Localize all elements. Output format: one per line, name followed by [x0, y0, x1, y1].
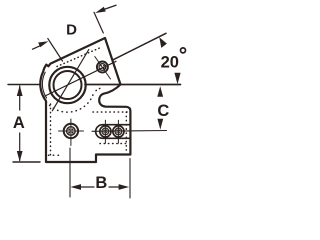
svg-text:20: 20	[161, 53, 179, 71]
hidden line: boss arc under block	[46, 92, 94, 113]
slot screw 2	[113, 126, 124, 137]
bore centerline steep	[52, 50, 89, 111]
arrow 20deg down	[174, 73, 180, 84]
arrow C down	[157, 119, 163, 130]
screw left	[59, 119, 84, 146]
arrow D right	[95, 7, 106, 13]
bore outer circle	[49, 67, 85, 103]
extension line bottom left (A bottom)	[13, 161, 40, 163]
dimension B extension right	[129, 159, 131, 199]
screw quadrant dots: slot screws	[103, 129, 104, 130]
slot with two screws	[96, 125, 131, 139]
svg-text:C: C	[157, 102, 169, 120]
D right extension stub	[94, 12, 103, 33]
D right arrow tail	[105, 5, 116, 9]
arrow A down	[17, 151, 23, 162]
svg-text:A: A	[13, 114, 25, 132]
boss inner chamfer arc	[42, 72, 46, 98]
bore centerline flat	[45, 61, 116, 96]
hidden line: row over slot area	[93, 111, 128, 113]
D left arrow tail	[33, 46, 41, 49]
hidden line: inside left edge	[50, 104, 52, 158]
arrow B right	[119, 184, 130, 190]
slot centerline to C extension	[92, 130, 167, 133]
hidden line: inside right edge	[125, 112, 127, 150]
dimension A line	[19, 86, 21, 110]
arrow 20deg arc	[159, 37, 167, 48]
body outline	[40, 38, 130, 162]
dimension B line	[80, 186, 94, 188]
hidden line: under top face	[57, 48, 100, 67]
screw quadrant dots: top-right screw	[103, 65, 105, 67]
extension line top horizontal left (A top)	[8, 84, 39, 86]
hidden line: above bottom right	[100, 143, 126, 145]
arrow A up	[17, 85, 23, 96]
dimension B extension left (bore centerline ext)	[69, 148, 71, 197]
D left extension stub	[48, 39, 63, 62]
arrow C up	[157, 86, 163, 97]
hidden line: step edge hidden left	[49, 154, 63, 156]
block top edge with extension to right	[85, 84, 181, 86]
slot screw 1	[100, 126, 111, 137]
arrow B left	[70, 184, 81, 190]
arrow D left	[38, 41, 48, 47]
20 deg inclined line	[112, 33, 166, 60]
bore inner circle	[54, 71, 82, 99]
degree symbol	[181, 48, 186, 53]
screw quadrant dots: left screw	[72, 128, 74, 130]
screw top-right	[95, 57, 111, 80]
svg-text:B: B	[95, 174, 107, 192]
svg-text:D: D	[66, 21, 77, 38]
